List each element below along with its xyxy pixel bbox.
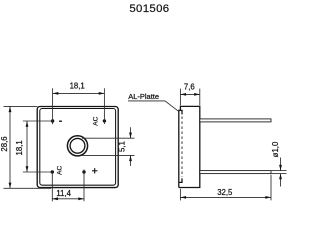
dim 18,1 top: dimension line <box>53 92 105 94</box>
dim o1,0: dimension line upper <box>280 158 282 171</box>
front view inner edge contour <box>40 109 116 186</box>
arrow 18,1 top left <box>53 92 59 95</box>
AL plate bottom hook <box>179 178 182 182</box>
svg-text:501506: 501506 <box>129 3 169 15</box>
svg-text:7,6: 7,6 <box>184 83 195 92</box>
center hole boss outer circle <box>67 136 87 156</box>
dim 32,5: dimension line <box>180 196 271 198</box>
AL plate left edge <box>179 110 182 187</box>
svg-text:AC: AC <box>93 116 100 125</box>
dim 7,6: extension lines <box>179 89 181 106</box>
dim 5,1 hole: dimension line lower <box>130 155 132 166</box>
dim 11,4 bottom: dimension line <box>52 198 84 200</box>
arrow 5,1 down <box>129 133 132 139</box>
dim 7,6: dimension line <box>180 93 199 95</box>
arrow 7,6 left <box>180 93 186 96</box>
arrow 32,5 right <box>265 196 271 199</box>
pin dot AC (top-right) <box>103 119 106 122</box>
svg-text:18,1: 18,1 <box>15 140 24 155</box>
pin dot plus (bottom-right) <box>82 170 85 173</box>
front view outer body outline <box>37 107 118 188</box>
arrow 5,1 up <box>129 155 132 161</box>
pin dot AC (bottom-left) <box>51 170 54 173</box>
dim 5,1 hole: extension lines <box>82 137 135 139</box>
arrow 28,6 down <box>9 183 12 189</box>
dim 5,1 hole: dimension line upper <box>130 127 132 138</box>
pin dot minus (top-left) <box>51 119 54 122</box>
svg-text:32,5: 32,5 <box>217 188 233 197</box>
svg-text:ø1,0: ø1,0 <box>271 141 280 157</box>
top pin (side view) <box>200 119 271 122</box>
svg-text:AC: AC <box>57 165 64 174</box>
arrow o1,0 up <box>279 174 282 180</box>
svg-text:5,1: 5,1 <box>117 141 126 152</box>
arrow 32,5 left <box>180 196 186 199</box>
arrow 18,1 left up <box>26 121 29 127</box>
dim 18,1 top: extension lines <box>52 88 54 124</box>
arrow 11,4 right <box>78 197 84 200</box>
svg-text:AL-Platte: AL-Platte <box>128 92 159 101</box>
dim 18,1 left: extension lines <box>23 120 53 122</box>
bottom pin (side view) <box>200 171 271 174</box>
dim 32,5: extension lines <box>179 189 181 201</box>
arrow 7,6 right <box>194 93 200 96</box>
dim 18,1 left: dimension line <box>26 121 28 172</box>
svg-text:18,1: 18,1 <box>70 81 85 90</box>
dim o1,0: dimension line lower <box>280 174 282 187</box>
dim o1,0: extension lines <box>271 170 286 172</box>
AL-Platte underline and leader <box>128 101 179 111</box>
AL plate hidden boundary (dashed) <box>181 116 183 177</box>
side view <box>179 106 200 187</box>
svg-text:28,6: 28,6 <box>0 136 9 151</box>
label minus <box>59 120 62 122</box>
mounting hole inner circle <box>70 138 85 153</box>
dim 28,6 left: extension lines <box>4 105 38 107</box>
dim 28,6 left: dimension line <box>9 106 11 188</box>
arrow 18,1 left down <box>26 166 29 172</box>
dim 11,4 bottom: extension lines <box>51 171 53 202</box>
label plus <box>92 168 97 173</box>
arrow o1,0 down <box>279 165 282 171</box>
arrow 28,6 up <box>9 106 12 112</box>
arrow 18,1 top right <box>99 92 105 95</box>
side body outline <box>179 106 200 187</box>
svg-text:11,4: 11,4 <box>56 189 71 198</box>
arrow 11,4 left <box>52 197 58 200</box>
